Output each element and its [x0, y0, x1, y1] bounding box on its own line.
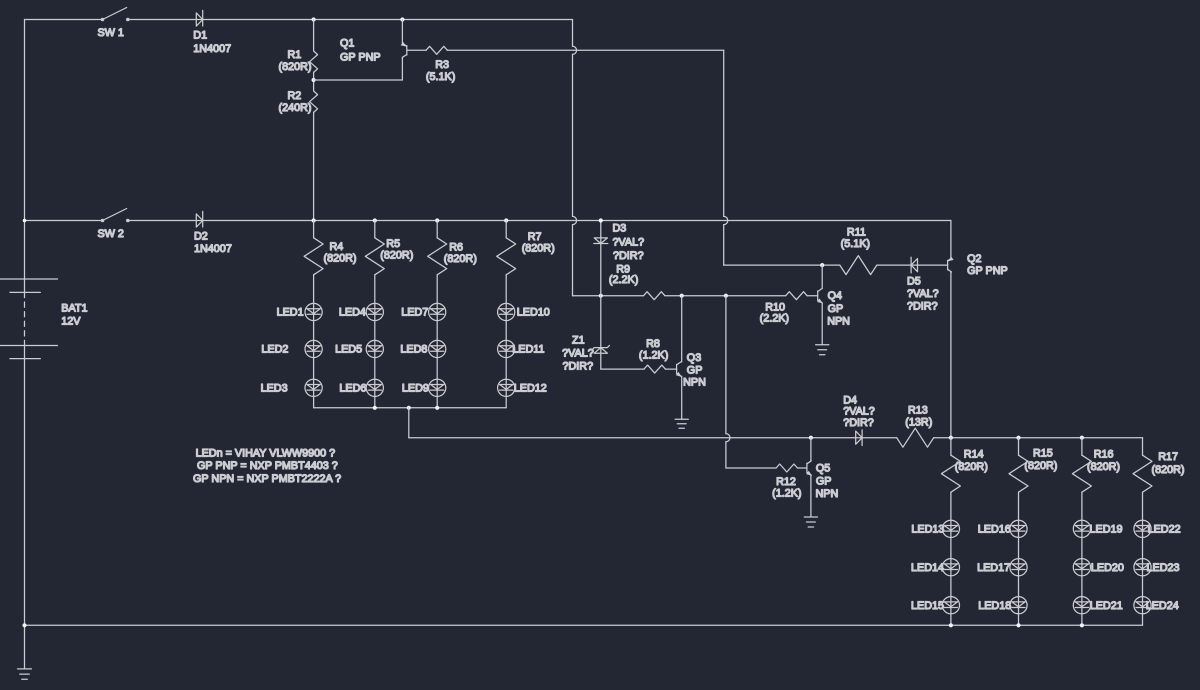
svg-text:LED6: LED6: [339, 383, 366, 395]
wire: [601, 368, 644, 370]
svg-text:LED16: LED16: [978, 524, 1011, 536]
transistor Q2: [948, 221, 1008, 438]
node bus: [435, 406, 439, 410]
svg-text:R8: R8: [646, 338, 660, 350]
wire: [505, 275, 507, 408]
svg-text:D2: D2: [194, 231, 208, 243]
diode D5: [907, 257, 939, 312]
diode D3: [594, 218, 644, 295]
led LED9: [402, 379, 446, 396]
svg-text:R6: R6: [449, 242, 463, 254]
node R16 top: [1080, 436, 1084, 440]
svg-text:?VAL?: ?VAL?: [843, 406, 875, 418]
wire: [1142, 492, 1144, 625]
svg-text:GP: GP: [828, 303, 844, 315]
ground Q5: [804, 517, 817, 527]
svg-text:LEDn = VIHAY VLWW9900 ?: LEDn = VIHAY VLWW9900 ?: [196, 447, 336, 459]
resistor R13: [897, 405, 934, 448]
wire: [1018, 492, 1020, 625]
node Q5 coll: [809, 436, 813, 440]
led LED14: [911, 559, 960, 576]
svg-text:LED22: LED22: [1148, 524, 1181, 536]
node R1-R2: [312, 78, 316, 82]
led LED1: [277, 303, 323, 320]
svg-text:Z1: Z1: [572, 335, 585, 347]
switch SW1: [98, 8, 130, 40]
battery BAT1: [0, 279, 88, 359]
svg-text:(5.1K): (5.1K): [426, 71, 455, 83]
resistor R7: [497, 221, 555, 275]
wire Q5 branch: [726, 296, 776, 468]
svg-text:BAT1: BAT1: [61, 303, 87, 315]
svg-text:Q4: Q4: [828, 290, 842, 302]
wire R11 feed: [724, 264, 840, 266]
wire drop x723: [724, 50, 728, 265]
svg-text:?VAL?: ?VAL?: [562, 347, 594, 359]
node rail1-R1: [312, 17, 316, 21]
svg-text:SW 2: SW 2: [98, 228, 124, 240]
svg-text:R11: R11: [847, 227, 866, 239]
wire mid437: [409, 437, 897, 439]
node Q3: [680, 294, 684, 298]
svg-text:Q2: Q2: [967, 253, 981, 265]
led LED20: [1073, 559, 1124, 576]
svg-text:GP: GP: [687, 364, 703, 376]
svg-text:LED23: LED23: [1147, 562, 1180, 574]
svg-text:LED2: LED2: [261, 344, 288, 356]
svg-text:R14: R14: [964, 448, 984, 460]
svg-text:(13R): (13R): [905, 417, 932, 429]
wire Q1 collector link: [314, 79, 403, 81]
svg-text:Q1: Q1: [340, 38, 354, 50]
svg-text:LED17: LED17: [977, 562, 1010, 574]
resistor R8: [639, 338, 677, 373]
svg-text:R4: R4: [330, 241, 344, 253]
resistor R11: [840, 227, 948, 275]
led LED16: [978, 520, 1027, 537]
led LED10: [498, 303, 550, 320]
led LED18: [978, 597, 1027, 614]
resistor R14: [941, 438, 987, 493]
svg-text:(820R): (820R): [1024, 460, 1057, 472]
ground Q4: [816, 345, 829, 355]
led LED11: [498, 340, 545, 357]
svg-text:LED14: LED14: [911, 562, 944, 574]
wire: [436, 275, 438, 408]
resistor R5: [365, 221, 413, 275]
svg-text:(1.2K): (1.2K): [772, 488, 801, 500]
svg-text:GP PNP: GP PNP: [967, 265, 1008, 277]
node bus bottom: [1016, 623, 1020, 627]
svg-text:?VAL?: ?VAL?: [907, 288, 939, 300]
node rail2 col1: [312, 218, 316, 222]
svg-text:LED13: LED13: [911, 524, 944, 536]
wire: [950, 492, 952, 625]
resistor R1: [279, 20, 318, 74]
wire left bus: [314, 407, 507, 409]
svg-text:R7: R7: [528, 231, 542, 243]
svg-text:?VAL?: ?VAL?: [613, 236, 645, 248]
resistor R15: [1009, 438, 1057, 493]
svg-text:LED5: LED5: [335, 344, 362, 356]
led LED19: [1073, 520, 1122, 537]
svg-text:Q3: Q3: [687, 352, 701, 364]
svg-text:D5: D5: [907, 276, 921, 288]
svg-text:R13: R13: [908, 405, 928, 417]
node bus bottom: [949, 623, 953, 627]
resistor R17: [1133, 438, 1185, 493]
svg-text:LED18: LED18: [978, 600, 1011, 612]
svg-text:LED20: LED20: [1091, 562, 1124, 574]
led LED23: [1134, 559, 1180, 576]
svg-text:D3: D3: [613, 223, 627, 235]
svg-text:D4: D4: [843, 394, 857, 406]
svg-text:LED3: LED3: [261, 383, 288, 395]
wire: [313, 112, 315, 220]
led LED2: [261, 340, 322, 357]
resistor R9: [609, 264, 665, 300]
led LED7: [401, 303, 446, 320]
svg-text:(820R): (820R): [380, 250, 413, 262]
svg-text:LED19: LED19: [1090, 524, 1123, 536]
led LED13: [911, 520, 959, 537]
svg-text:LED24: LED24: [1146, 600, 1179, 612]
node rail2-left: [23, 219, 27, 223]
wire: [128, 19, 573, 21]
svg-text:(820R): (820R): [279, 61, 312, 73]
resistor R4: [304, 221, 356, 275]
resistor R2: [279, 90, 318, 114]
svg-text:R2: R2: [288, 90, 302, 102]
node bus: [407, 406, 411, 410]
svg-text:1N4007: 1N4007: [194, 243, 232, 255]
resistor R12: [772, 464, 807, 500]
led LED17: [977, 559, 1027, 576]
led LED15: [911, 597, 960, 614]
wire: [24, 346, 26, 669]
svg-text:?DIR?: ?DIR?: [563, 361, 594, 373]
svg-text:LED7: LED7: [401, 307, 428, 319]
led LED21: [1073, 597, 1122, 614]
svg-text:(820R): (820R): [324, 252, 357, 264]
node D3: [599, 294, 603, 298]
transistor Q1: [340, 20, 407, 81]
wire rail2: [25, 220, 103, 222]
svg-text:LED12: LED12: [514, 383, 547, 395]
node Q2-R13: [949, 436, 953, 440]
svg-text:GP PNP: GP PNP: [340, 52, 381, 64]
wire: [25, 19, 103, 21]
wire: [313, 275, 315, 408]
svg-text:?DIR?: ?DIR?: [907, 301, 938, 313]
svg-text:(2.2K): (2.2K): [760, 313, 789, 325]
node bus: [373, 406, 377, 410]
led LED24: [1134, 597, 1179, 614]
node rail1-Q1: [400, 17, 404, 21]
svg-text:GP PNP = NXP PMBT4403 ?: GP PNP = NXP PMBT4403 ?: [197, 460, 338, 472]
svg-text:R16: R16: [1094, 448, 1114, 460]
svg-text:(240R): (240R): [279, 102, 312, 114]
svg-text:Q5: Q5: [816, 462, 830, 474]
wire: [24, 20, 26, 293]
wire: [313, 72, 315, 91]
led LED6: [339, 379, 383, 396]
svg-text:R17: R17: [1158, 451, 1178, 463]
svg-text:1N4007: 1N4007: [193, 43, 231, 55]
svg-text:GP: GP: [816, 475, 832, 487]
wire: [934, 437, 1143, 439]
zener Z1: [562, 296, 609, 373]
svg-text:GP NPN = NXP PMBT2222A ?: GP NPN = NXP PMBT2222A ?: [193, 473, 341, 485]
svg-text:R3: R3: [435, 59, 449, 71]
svg-text:R15: R15: [1033, 447, 1053, 459]
wire x573: [573, 20, 577, 296]
svg-text:12V: 12V: [61, 316, 81, 328]
svg-text:LED21: LED21: [1090, 600, 1123, 612]
wire node295: [573, 295, 644, 297]
svg-text:(820R): (820R): [522, 243, 555, 255]
svg-text:LED15: LED15: [911, 600, 944, 612]
note text: [193, 447, 341, 484]
transistor Q4: [817, 265, 850, 345]
resistor R3: [407, 46, 724, 83]
resistor R10: [760, 292, 818, 325]
node R15 top: [1016, 436, 1020, 440]
svg-text:LED8: LED8: [400, 344, 427, 356]
node Q4 collector: [820, 263, 824, 267]
node rail2 col2: [373, 218, 377, 222]
diode D4: [843, 394, 875, 445]
wire: [374, 275, 376, 408]
wire: [1081, 492, 1083, 625]
svg-text:R5: R5: [386, 238, 400, 250]
svg-text:(5.1K): (5.1K): [841, 238, 870, 250]
ground Q3: [675, 419, 688, 428]
svg-text:(1.2K): (1.2K): [639, 349, 668, 361]
svg-text:LED11: LED11: [512, 344, 544, 356]
diode D2: [194, 211, 232, 255]
svg-text:(2.2K): (2.2K): [609, 274, 638, 286]
svg-text:R10: R10: [765, 301, 785, 313]
transistor Q5: [806, 438, 838, 517]
switch SW2: [98, 209, 130, 241]
node rail2 col3: [435, 218, 439, 222]
transistor Q3: [676, 296, 706, 420]
node bus-bat: [22, 623, 26, 627]
svg-text:NPN: NPN: [816, 488, 839, 500]
led LED12: [498, 379, 547, 396]
svg-text:(820R): (820R): [955, 461, 988, 473]
wire bottom bus: [25, 624, 1143, 626]
node Q5 branch: [724, 294, 728, 298]
diode D1: [193, 10, 231, 55]
svg-text:LED9: LED9: [402, 383, 429, 395]
svg-text:?DIR?: ?DIR?: [613, 250, 644, 262]
wire: [665, 295, 786, 297]
svg-text:(820R): (820R): [444, 253, 477, 265]
svg-text:R1: R1: [288, 49, 302, 61]
wire rail2b: [128, 220, 951, 222]
led LED3: [261, 379, 323, 396]
resistor R6: [428, 221, 477, 275]
node rail2 col4: [504, 218, 508, 222]
svg-text:LED10: LED10: [517, 307, 550, 319]
node bus bottom: [1080, 623, 1084, 627]
ground main: [18, 669, 32, 679]
led LED4: [339, 303, 384, 320]
svg-text:D1: D1: [193, 30, 207, 42]
led LED22: [1134, 520, 1181, 537]
svg-text:LED4: LED4: [339, 307, 366, 319]
led LED8: [400, 340, 445, 357]
svg-text:LED1: LED1: [277, 307, 304, 319]
wire jog: [408, 408, 410, 438]
resistor R16: [1072, 438, 1120, 493]
led LED5: [335, 340, 383, 357]
svg-text:R12: R12: [776, 476, 796, 488]
svg-text:(820R): (820R): [1152, 464, 1185, 476]
svg-text:SW 1: SW 1: [98, 27, 124, 39]
svg-text:?DIR?: ?DIR?: [843, 417, 874, 429]
svg-text:NPN: NPN: [827, 316, 850, 328]
svg-text:(820R): (820R): [1087, 461, 1120, 473]
svg-text:NPN: NPN: [683, 377, 706, 389]
